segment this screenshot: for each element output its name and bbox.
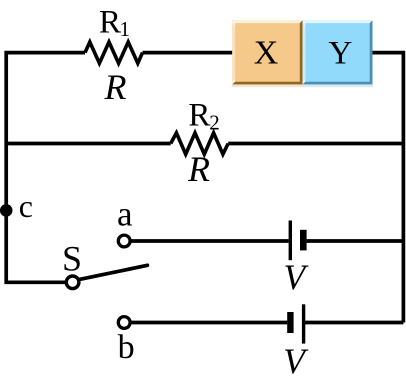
resistor R1 [85,42,143,63]
node c [0,204,13,217]
svg-text:2: 2 [209,110,220,134]
terminal a circle [118,235,130,247]
svg-text:a: a [117,195,133,234]
switch S pivot [66,276,79,289]
svg-text:X: X [254,35,279,72]
svg-text:Y: Y [328,35,352,71]
battery V2 long plate [302,304,305,343]
svg-text:R: R [104,67,127,107]
wire: left rail + top wire start + bottom switch wire [6,53,85,283]
switch S lever [79,265,148,279]
svg-text:c: c [19,188,33,224]
svg-text:R: R [188,98,210,134]
battery V1 short plate [300,230,307,251]
svg-text:R: R [99,5,121,41]
battery V1 long plate [289,221,292,261]
wire: from terminal b to battery V2 [130,321,287,325]
wire: from terminal a to battery V1 [130,239,288,243]
battery V2 short plate [287,312,293,333]
wire: top wire from R1 to top-right corner, right rail [143,53,404,323]
wire: R2 row right segment [228,142,403,146]
component box X [232,20,304,87]
svg-text:R: R [187,149,210,189]
wire: battery V1 to right rail [307,239,404,243]
resistor R2 [171,133,229,154]
wire: battery V2 to right rail [304,321,404,325]
component box Y [303,20,374,87]
wire: R2 row left segment [6,142,171,146]
svg-text:1: 1 [120,17,131,41]
svg-text:b: b [118,329,135,366]
svg-text:S: S [62,239,82,279]
terminal b circle [118,317,130,329]
